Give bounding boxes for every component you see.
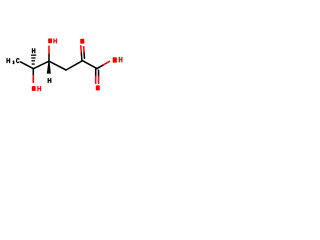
- bond C3-C2: [66, 61, 83, 70]
- label OH (on C5, below) - H: [37, 86, 41, 91]
- bond C4-C3: [49, 61, 66, 70]
- label O (carboxyl =O, below C1): [96, 85, 100, 90]
- label H3C - subscript 3: [13, 61, 14, 64]
- bond C1-OH red part: [104, 61, 110, 64]
- bond C5-C4: [33, 61, 49, 68]
- hash wedge C5-H (stereo, dashes widen toward H above): [31, 55, 36, 64]
- bond C2-C1: [83, 61, 98, 69]
- carboxyl C1=O main line black part: [95, 69, 97, 77]
- label OH (on C4, above) - H: [53, 39, 56, 44]
- bond C1-OH black part: [97, 65, 104, 69]
- label H3C (methyl C6) - H: [7, 58, 10, 63]
- background: [0, 0, 130, 130]
- label OH (carboxyl, right) - O: [113, 57, 117, 63]
- label OH (carboxyl, right) - H: [119, 57, 122, 62]
- bond C5-OH red part: [32, 76, 34, 83]
- ketone C2=O second line black part: [83, 52, 85, 58]
- ketone C2=O second line red part: [83, 47, 85, 52]
- bond C6-C5 (H3C to C5): [21, 62, 34, 69]
- carboxyl C1=O second line red part: [98, 76, 100, 83]
- label O (ketone, above C2): [80, 39, 84, 44]
- bond C5-OH black part: [32, 69, 34, 76]
- label H (on C4, below): [48, 78, 51, 83]
- ketone C2=O main line red part: [80, 46, 82, 52]
- solid wedge C4-H (stereo, widens toward H below): [47, 61, 51, 73]
- carboxyl C1=O main line red part: [95, 76, 97, 83]
- label H (on C5, above): [32, 48, 35, 53]
- label OH (on C4, above) - O: [48, 38, 52, 43]
- label OH (on C5, below) - O: [32, 86, 36, 91]
- ketone C2=O main line black part: [80, 52, 83, 61]
- bond C4-OH red part: [48, 46, 50, 53]
- bond C4-OH black part: [48, 54, 50, 62]
- label H3C - C: [16, 58, 19, 63]
- carboxyl C1=O second line black part: [98, 70, 100, 76]
